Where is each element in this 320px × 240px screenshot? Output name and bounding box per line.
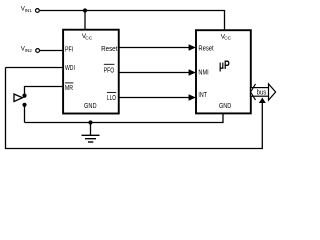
- svg-text:MR: MR: [65, 85, 73, 92]
- svg-text:GND: GND: [84, 103, 97, 110]
- svg-text:bus: bus: [257, 90, 267, 97]
- svg-text:GND: GND: [219, 103, 231, 110]
- svg-text:NMI: NMI: [198, 70, 208, 77]
- svg-text:µP: µP: [219, 60, 230, 72]
- svg-text:PFO: PFO: [104, 68, 115, 75]
- svg-text:Reset: Reset: [198, 46, 213, 53]
- svg-text:CC: CC: [224, 36, 231, 42]
- svg-text:IN1: IN1: [25, 8, 33, 13]
- svg-text:CC: CC: [85, 35, 92, 41]
- svg-text:LLO: LLO: [107, 95, 116, 102]
- svg-text:INT: INT: [198, 92, 207, 99]
- svg-text:Reset: Reset: [101, 46, 117, 53]
- svg-text:WDI: WDI: [65, 65, 75, 72]
- svg-text:IN2: IN2: [25, 48, 33, 53]
- svg-text:PFI: PFI: [65, 46, 73, 53]
